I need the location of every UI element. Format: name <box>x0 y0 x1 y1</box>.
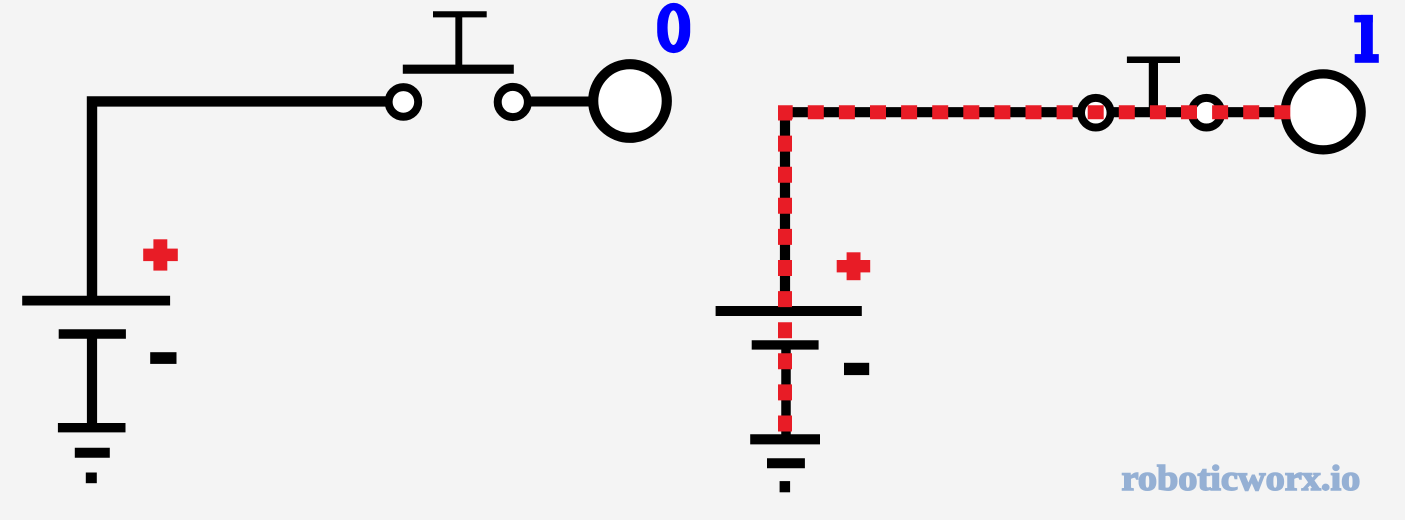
current flow overlay (red dashes) <box>785 112 1292 431</box>
battery BT1 + label <box>143 239 178 270</box>
pushbutton SW1 plunger stem <box>455 14 462 69</box>
battery BT2 positive plate <box>716 306 862 316</box>
pushbutton SW2 left contact <box>1081 98 1111 128</box>
wire: SW1 to lamp LA1 <box>528 97 592 107</box>
node label 0 (lamp off) <box>657 3 690 53</box>
ground (left) <box>58 428 126 484</box>
pushbutton SW2 plunger stem (pressed) <box>1149 60 1158 112</box>
wire: battery BT2 negative lead <box>781 345 791 440</box>
lamp LA2 <box>1285 74 1361 150</box>
svg-text:roboticworx.io: roboticworx.io <box>1122 458 1361 497</box>
lamp LA1 <box>593 64 667 138</box>
ground (right) <box>750 439 820 492</box>
battery BT2 negative plate <box>752 340 819 349</box>
wire: battery BT1 negative lead <box>87 334 97 428</box>
pushbutton SW1 right contact <box>498 87 528 117</box>
wire: left battery + terminal to switch contact <box>92 101 391 300</box>
node label 1 (lamp on) <box>1354 15 1378 63</box>
pushbutton SW1 left contact <box>389 87 419 117</box>
battery BT1 negative plate <box>59 329 126 339</box>
pushbutton SW1 cap bar <box>433 11 487 17</box>
battery BT2 + label <box>837 252 871 280</box>
battery BT2 - label <box>844 363 869 375</box>
battery BT1 positive plate <box>22 296 170 306</box>
pushbutton SW2 cap bar <box>1127 57 1180 64</box>
battery BT1 - label <box>150 352 176 364</box>
pushbutton SW1 actuator bar <box>403 65 514 74</box>
pushbutton SW2 right contact <box>1192 98 1222 128</box>
wire: right battery + terminal through closed switch to lamp <box>785 112 1281 311</box>
